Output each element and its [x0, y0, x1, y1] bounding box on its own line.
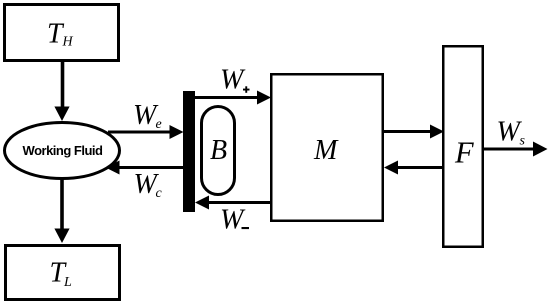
svg-text:c: c [156, 186, 163, 201]
arrowhead W_s output [533, 142, 548, 157]
label W_- [220, 205, 249, 236]
label W_s [497, 116, 526, 148]
svg-text:F: F [454, 136, 474, 170]
label W_+ [220, 64, 250, 95]
svg-text:s: s [520, 134, 526, 149]
stadium B [202, 107, 235, 195]
svg-text:W: W [220, 64, 246, 95]
box M [271, 74, 383, 221]
ellipse Working Fluid [5, 123, 120, 179]
box F [443, 46, 483, 247]
wire W_- arrow [209, 201, 270, 204]
label T_H [47, 18, 74, 49]
svg-text:L: L [63, 275, 72, 290]
wire W_e arrow [108, 131, 170, 134]
wire F to M arrow [398, 166, 443, 169]
wire W_c arrow [119, 166, 183, 169]
svg-text:Working Fluid: Working Fluid [23, 143, 103, 158]
label T_L [50, 257, 73, 289]
box T_H [5, 5, 119, 61]
arrowhead W_+ into M [257, 91, 271, 105]
arrowhead into T_L [54, 229, 69, 244]
wire W_s arrow [484, 148, 533, 151]
svg-text:M: M [313, 135, 339, 166]
wire W_+ arrow [195, 96, 257, 99]
wire Working Fluid to T_L [60, 179, 64, 230]
arrowhead into Working Fluid [54, 107, 69, 122]
arrowhead into F [430, 125, 444, 139]
svg-text:H: H [62, 35, 74, 50]
arrowhead W_e into bar [170, 125, 184, 139]
box T_L [6, 246, 120, 300]
bar (boiler wall) [183, 91, 195, 212]
svg-text:e: e [156, 117, 162, 132]
wire T_H to Working Fluid [61, 60, 65, 108]
wire M to F arrow [384, 130, 430, 133]
label W_c [134, 169, 163, 201]
arrowhead W_c into ellipse [106, 161, 120, 175]
arrowhead into M [384, 161, 398, 175]
label W_e [133, 100, 162, 132]
svg-text:B: B [210, 135, 227, 166]
svg-text:W: W [220, 205, 246, 236]
arrowhead W_- into bar [195, 196, 209, 210]
